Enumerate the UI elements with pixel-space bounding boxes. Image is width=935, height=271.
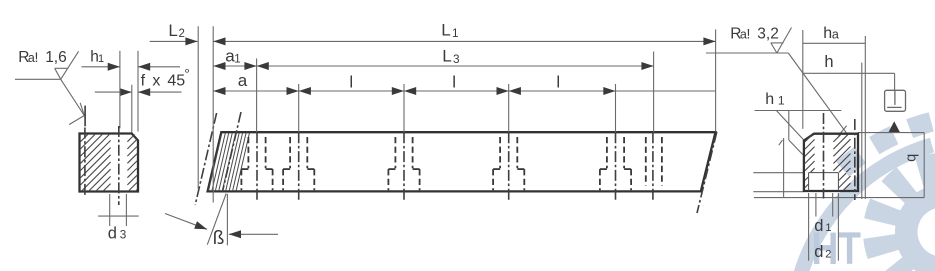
extension line last hole (L3) (653, 52, 655, 133)
label a (238, 71, 248, 90)
svg-text:a: a (832, 27, 839, 41)
dimension l arrows 1 (299, 87, 404, 95)
extension line pitch 4 (615, 84, 617, 132)
svg-text:!: ! (747, 26, 751, 42)
slanted tooth trace line (left inner) (222, 112, 241, 192)
left view hatching right band (127, 135, 137, 191)
right view roughness symbol (706, 28, 792, 54)
right view extension line ha right (864, 36, 866, 199)
extension line right end (L1) (715, 29, 717, 131)
svg-text:1: 1 (825, 222, 831, 234)
angle beta diagonal arrow (165, 214, 207, 230)
left view hatching left band (81, 135, 111, 191)
svg-text:x: x (152, 73, 160, 90)
dimension ha (803, 25, 866, 44)
extension line left end (L2) (197, 26, 199, 189)
b measurement frame right vertical (923, 133, 925, 198)
svg-text:3: 3 (120, 229, 127, 242)
rack left-end section hatching (209, 133, 250, 190)
right view dimension h1 label (765, 91, 785, 108)
dimension L2 (150, 21, 198, 46)
left view dimension f x 45deg label (141, 66, 190, 90)
dimension a arrows (213, 87, 298, 95)
hidden plain hole symbol at right end (646, 132, 662, 200)
svg-text:l: l (452, 73, 456, 92)
angle beta horizontal arrow (229, 230, 278, 238)
extension line left face (L1/a) (212, 26, 214, 202)
angle beta reference vertical (226, 194, 228, 245)
right view extension line back face (802, 30, 804, 129)
right view counterbore depth extension (753, 172, 803, 174)
right view hatching upper-right (833, 135, 850, 173)
right view bottom face extension (753, 191, 803, 193)
right view d1 extension lines (816, 193, 833, 217)
dimension L1 (213, 21, 715, 46)
svg-text:d: d (108, 224, 117, 242)
watermark gear (863, 153, 935, 271)
svg-text:d: d (814, 217, 823, 235)
svg-text:1: 1 (778, 94, 785, 108)
watermark swoosh arc (792, 138, 934, 271)
left view surface roughness label Ra! 1,6 (18, 49, 66, 66)
label l (1) (349, 73, 353, 92)
svg-text:3,2: 3,2 (757, 26, 779, 43)
label b (rotated) (904, 154, 920, 162)
label beta (213, 228, 225, 249)
left view dimension h1 lines (82, 63, 181, 71)
left view roughness leader with open arrow (61, 79, 85, 124)
left view d3 label (108, 224, 127, 242)
svg-text:h: h (824, 53, 833, 71)
slanted tooth trace line (right end) (697, 132, 717, 213)
right view counterbore wall left (808, 173, 810, 191)
right view surface roughness label Ra! 3,2 (730, 26, 779, 43)
svg-text:L: L (442, 47, 451, 66)
svg-text:h: h (823, 25, 832, 42)
dimension l arrows 2 (404, 87, 509, 95)
label l (2) (452, 73, 456, 92)
left view extension line f-left (131, 85, 133, 133)
svg-text:l: l (349, 73, 353, 92)
hidden counterbored hole symbol 4 at x=508.7 (493, 132, 524, 200)
extension line first hole (a1/L3) (256, 59, 258, 133)
svg-text:2: 2 (179, 28, 185, 40)
left view extension line hole-axis/h1 (119, 51, 121, 129)
hidden counterbored hole symbol 5 at x=615.5 (600, 132, 631, 200)
dimension L3 (257, 47, 654, 70)
hidden counterbored hole symbol 1 at x=257 (241, 132, 272, 200)
left view leader target bar (84, 106, 86, 127)
extension line pitch 1 (298, 84, 300, 132)
svg-text:b: b (904, 154, 920, 162)
right view h1 drop line (789, 111, 803, 155)
right view counterbore wall right (837, 173, 839, 191)
dimension a1 (213, 47, 256, 70)
left view dimension h1 label (90, 48, 104, 65)
watermark gear tooth band (836, 112, 934, 176)
extension line pitch 3 (508, 84, 510, 132)
label d1 (814, 217, 831, 235)
svg-text:f: f (141, 73, 146, 90)
left view extension line right edge (137, 51, 139, 132)
left view dimension f lines (95, 88, 182, 96)
svg-text:3: 3 (453, 52, 460, 66)
svg-text:h: h (765, 91, 774, 108)
label d2 (814, 243, 831, 261)
svg-text:L: L (168, 21, 177, 40)
right view roughness leader (788, 53, 846, 136)
right view h1 line (755, 110, 842, 112)
left view d3 dimension line (98, 215, 139, 217)
extension line pitch 2 (403, 84, 405, 132)
svg-text:ß: ß (213, 228, 225, 249)
svg-text:45: 45 (167, 73, 185, 90)
left view hole axis center line (118, 126, 120, 205)
right view leader barb (779, 140, 783, 145)
right view tooth root line (854, 119, 856, 200)
right view hole axis center line (823, 113, 825, 199)
measuring gauge pointer triangle (888, 121, 900, 132)
svg-text:°: ° (184, 66, 190, 82)
svg-text:1: 1 (98, 53, 104, 65)
right view hatching lower-left strip (805, 177, 808, 187)
left view rack end section outline (80, 134, 139, 192)
pitch chain dimension line (213, 90, 715, 92)
dimension h line to gauge (803, 53, 895, 90)
right view hatching lower-right (839, 173, 851, 190)
angle beta slanted line (207, 194, 226, 245)
dimension l arrows 3 (509, 87, 616, 95)
svg-text:d: d (814, 243, 823, 261)
b measurement frame bottom line (754, 197, 924, 199)
svg-text:!: ! (35, 49, 39, 65)
svg-text:2: 2 (825, 248, 831, 260)
svg-text:1,6: 1,6 (45, 49, 67, 66)
slanted tooth trace line (left outer) (195, 113, 216, 205)
measuring gauge symbol box (885, 90, 906, 111)
svg-text:1: 1 (452, 26, 459, 40)
tooth tip plane line (858, 132, 924, 134)
svg-text:L: L (441, 21, 450, 40)
right view hatching upper-left (805, 135, 815, 173)
svg-text:1: 1 (234, 54, 240, 66)
label l (3) (556, 73, 560, 92)
hidden counterbored hole symbol 3 at x=404 (388, 132, 419, 200)
left view center line (84, 128, 86, 198)
svg-text:l: l (556, 73, 560, 92)
left view d3 extension lines (110, 194, 127, 226)
right view extension line h right (861, 63, 863, 199)
right view counterbore top edge (809, 172, 839, 174)
svg-text:a: a (238, 71, 248, 90)
watermark HT letters (812, 223, 862, 271)
right view rack end section outline (804, 134, 858, 191)
rack bar outline (middle view) (208, 132, 716, 191)
right view left short vertical (783, 138, 785, 198)
right view chamfer leader (776, 111, 804, 141)
left view roughness symbol (15, 51, 79, 79)
hidden counterbored hole symbol 2 at x=298.7 (283, 132, 314, 200)
right view d2 extension lines (809, 193, 839, 261)
